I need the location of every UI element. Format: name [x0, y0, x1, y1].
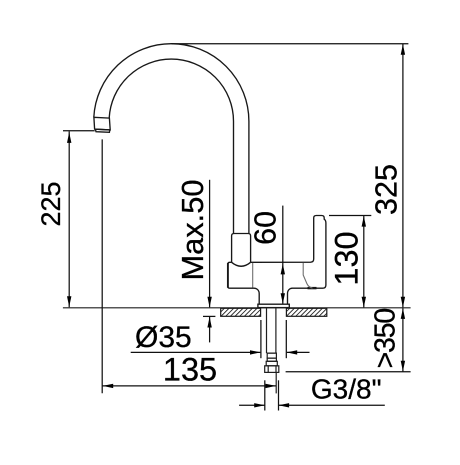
svg-text:130: 130: [329, 231, 365, 285]
svg-text:G3/8": G3/8": [311, 374, 382, 405]
svg-text:325: 325: [370, 164, 404, 215]
svg-text:Ø35: Ø35: [135, 321, 192, 354]
svg-text:60: 60: [249, 211, 283, 245]
svg-text:135: 135: [163, 352, 217, 388]
svg-text:>350: >350: [370, 309, 402, 369]
svg-text:Max.50: Max.50: [175, 180, 210, 281]
svg-text:225: 225: [36, 181, 66, 226]
